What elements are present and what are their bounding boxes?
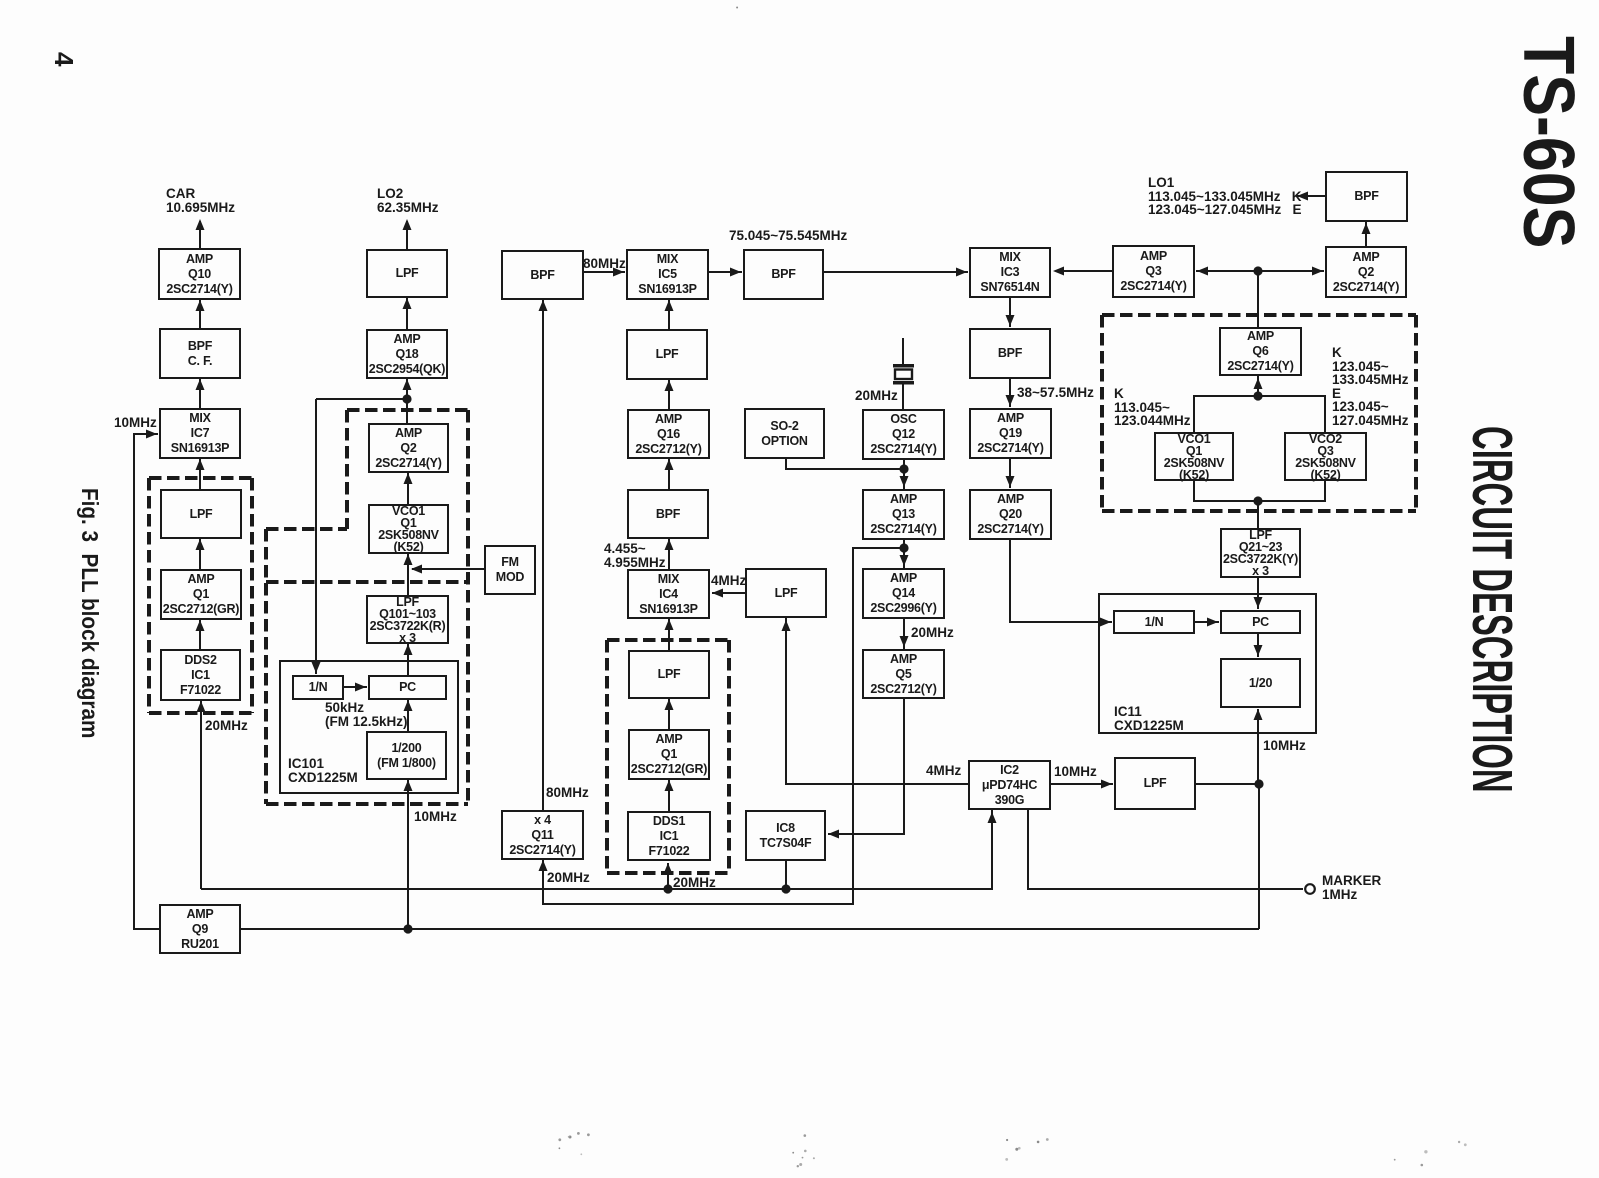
arrow into 1/20 (1254, 645, 1263, 656)
block AMP Q18 (366, 329, 448, 379)
block BPF (80MHz) (501, 250, 584, 300)
dashed group VCO1-left left edge upper (345, 410, 349, 529)
block PC (IC101) (368, 675, 447, 700)
block MIX IC4 (627, 569, 710, 619)
block 1/N (IC101) (292, 675, 344, 700)
junction DDS1 20MHz (663, 884, 672, 893)
label LO2 62.35MHz (377, 187, 439, 215)
wire AMP Q14 to AMP Q5 20MHz (903, 619, 905, 649)
arrow into 1/20 bottom (1254, 709, 1263, 720)
junction 10MHz right (1254, 779, 1263, 788)
arrow into 1/200 (404, 780, 413, 791)
crystal X1 20MHz plates and body (893, 364, 914, 385)
arrow into PC IC101 (404, 700, 413, 711)
arrow into PC IC11 (1207, 618, 1218, 627)
arrow into AMP Q1 DDS1 group (665, 780, 674, 791)
block BPF (LO1) (1325, 171, 1408, 222)
block LPF Q101-103 (366, 595, 449, 644)
block PC (IC11) (1220, 610, 1301, 634)
label MARKER 1MHz (1322, 874, 1381, 902)
junction IC8 20MHz (781, 884, 790, 893)
arrow 1/N to PC IC101 (355, 683, 366, 692)
wire IC8 bottom to rail (785, 861, 787, 889)
block 1/N (IC11) (1113, 610, 1195, 634)
wire 10MHz into MIX IC7 (134, 434, 159, 929)
wire 1/N to PC (IC101) (344, 686, 367, 688)
block AMP Q9 (159, 904, 241, 954)
wire BPF to MIX IC5 80MHz (584, 271, 625, 273)
arrow into 1/N IC101 (312, 662, 321, 673)
block BPF (75MHz) (743, 249, 824, 300)
label 10MHz 1/20 (1263, 739, 1306, 753)
block VCO1 Q1 (right) (1154, 432, 1234, 481)
dashed group right edge shared (466, 410, 470, 804)
label 80MHz x4 (546, 786, 589, 800)
wire LPF to MIX IC7 (199, 459, 201, 489)
wire crystal top lead (902, 338, 904, 364)
wire LO2 output (406, 221, 408, 249)
wire PC to 1/20 (1257, 634, 1259, 657)
wire MIX IC5 to BPF 75MHz (709, 271, 742, 273)
label CAR 10.695MHz (166, 187, 235, 215)
arrow into DDS2 (197, 701, 206, 712)
wire MIX IC7 to BPF C.F. (199, 379, 201, 408)
arrow into AMP Q10 (196, 300, 205, 311)
wire AMP Q1 to LPF (199, 539, 201, 569)
arrow into VCO1 (404, 554, 413, 565)
block FM MOD (484, 545, 536, 595)
arrow into MIX IC5 left (613, 268, 624, 277)
wire x4 to BPF 80MHz (542, 300, 544, 810)
wire VCO bottoms rail (1194, 481, 1325, 501)
wire VCO tops rail (1194, 396, 1325, 432)
wire PC to LPF Q101 (407, 644, 409, 675)
IC container IC11 CXD1225M (1098, 593, 1317, 734)
block IC2 uPD74HC390G (968, 760, 1051, 810)
wire branch down to 1/N (315, 399, 317, 674)
wire AMP Q6 to VCO junction (1257, 376, 1259, 396)
block LPF (10MHz) (1114, 757, 1196, 810)
block LPF (DDS2 group) (160, 489, 242, 539)
wire CAR output (199, 221, 201, 248)
block 1/200 (366, 731, 447, 780)
label CIRCUIT DESCRIPTION (rotated) (1459, 426, 1525, 793)
wire AMP Q2 to BPF (LO1) (1365, 221, 1367, 246)
label 10MHz IC2 (1054, 765, 1097, 779)
junction 10MHz rail left (403, 924, 412, 933)
arrow into AMP Q3 right (1197, 267, 1208, 276)
block AMP Q5 (862, 649, 945, 699)
wire crystal bottom lead (902, 384, 904, 409)
wire SO-2 OPTION to OSC junction (786, 459, 904, 469)
dashed group DDS2 bottom edge (149, 711, 252, 715)
label K 113.045-123.044MHz (1114, 387, 1191, 428)
dashed group DDS1 right edge (727, 640, 731, 873)
label 4MHz MIX IC4 (711, 574, 746, 588)
arrow into BPF 4.455MHz (665, 539, 674, 550)
arrow into IC2 bottom (988, 812, 997, 823)
junction AMP Q13 output (899, 543, 908, 552)
dashed group DDS1 outline (607, 638, 729, 642)
wire junction A to divider branch (316, 398, 407, 400)
wire AMP Q3 to MIX IC3 (1056, 270, 1112, 272)
arrow into MIX IC7 left (146, 430, 157, 439)
arrow into x4 (539, 860, 548, 871)
arrow into AMP Q2 LO1 left (1312, 267, 1323, 276)
block DDS1 IC1 (627, 811, 711, 861)
block LPF (4MHz) (745, 568, 827, 618)
wire 1/N to PC (IC11) (1195, 621, 1219, 623)
block AMP Q16 (627, 409, 710, 459)
arrow into MIX IC3 right (1053, 267, 1064, 276)
arrow into LPF 10MHz left (1101, 780, 1112, 789)
block VCO2 Q3 (1284, 432, 1367, 481)
arrow into MIX IC7 bottom (196, 459, 205, 470)
wire 20MHz to x4 (543, 548, 903, 904)
block AMP Q1 (DDS1 group) (628, 729, 710, 780)
wire IC2 to LPF 10MHz (1051, 783, 1113, 785)
block DDS2 IC1 (160, 649, 241, 701)
wire 10MHz rail bottom (241, 928, 1259, 930)
arrow into LPF LO2 (403, 298, 412, 309)
arrow into AMP Q19 (1006, 395, 1015, 406)
block 1/20 (1220, 658, 1301, 708)
wire LPF to MIX IC5 vertical (668, 300, 670, 329)
wire AMP Q2 up to junction A (406, 379, 408, 423)
wire OSC Q12 to AMP Q13 (903, 459, 905, 489)
label IC11 CXD1225M (1114, 705, 1184, 733)
block AMP Q19 (969, 408, 1052, 459)
wire 20MHz rail to DDS2 (200, 701, 202, 889)
block x4 Q11 (501, 810, 584, 860)
label TS-60S (rotated) (1507, 36, 1589, 248)
block SO-2 OPTION (744, 408, 825, 459)
arrow into MIX IC4 bottom (665, 619, 674, 630)
block IC8 TC7S04F (745, 810, 826, 861)
arrow into BPF 80MHz (539, 300, 548, 311)
arrow FM MOD into VCO line (411, 565, 422, 574)
wire LPF Q21-23 to PC (1257, 578, 1259, 609)
wire LPF Q101 to VCO1 (407, 554, 409, 595)
dashed group divider edge (266, 580, 468, 584)
wire BPF LO1 output (1297, 195, 1325, 197)
junction AMP Q18 branch (402, 394, 411, 403)
block AMP Q3 (1112, 245, 1195, 298)
label 20MHz DDS1 (673, 876, 716, 890)
wire MIX IC4 to BPF 4.455MHz (668, 539, 670, 569)
block AMP Q20 (969, 489, 1052, 540)
wire AMP Q18 to LPF (406, 298, 408, 329)
block AMP Q10 (158, 248, 241, 300)
wire VCO rail to LPF Q21-23 (1257, 501, 1259, 528)
label page number 4 (rotated) (48, 52, 79, 66)
wire IC2 to LPF 4MHz (786, 618, 968, 784)
arrow into DDS1 (664, 863, 673, 874)
dashed group VCO-right left edge (1100, 315, 1104, 511)
arrow into 1/N IC11 (1100, 618, 1111, 627)
wire 10MHz junction to 1/20 (1257, 709, 1259, 784)
arrow into LPF 4MHz bottom (782, 620, 791, 631)
IC container IC101 CXD1225M (279, 660, 459, 794)
arrow into BPF LO1 (1362, 223, 1371, 234)
wire LPF to MIX IC4 4MHz (712, 592, 745, 594)
wire 20MHz rail to DDS1 (667, 863, 669, 889)
wire BPF to AMP Q16 (668, 459, 670, 489)
arrow into LPF Q101 (404, 644, 413, 655)
label IC101 CXD1225M (288, 757, 358, 785)
wire 1/200 to PC (407, 700, 409, 731)
junction LO1 line (1253, 266, 1262, 275)
block LPF (LO2) (366, 249, 448, 298)
dashed group VCO-right bottom edge (1102, 509, 1416, 513)
wire DDS2 to AMP Q1 (199, 620, 201, 649)
arrow LO2 out (403, 219, 412, 230)
block VCO1 Q1 (left) (368, 504, 449, 554)
block LPF Q21-23 (1220, 528, 1301, 578)
arrow into AMP Q1 (196, 620, 205, 631)
wire VCO1 to AMP Q2 (407, 473, 409, 504)
arrow BPF LO1 out (1297, 192, 1308, 201)
wire AMP Q5 to IC8 (828, 699, 904, 834)
arrow into BPF 75MHz (730, 268, 741, 277)
label 80MHz MIX IC5 (583, 257, 626, 271)
dashed group DDS1 left edge (605, 640, 609, 873)
wire MIX IC3 to BPF 38MHz (1009, 298, 1011, 327)
arrow into MIX IC5 bottom (665, 300, 674, 311)
arrow into LPF (196, 539, 205, 550)
node MARKER terminal (1305, 884, 1315, 894)
block BPF (4.455MHz) (627, 489, 709, 539)
wire DDS1 to AMP Q1 (668, 780, 670, 811)
dashed group DDS1 bottom edge (607, 871, 729, 875)
block OSC Q12 (862, 409, 945, 460)
dashed group VCO1-left top edge (347, 408, 468, 412)
arrow into AMP Q13 (900, 476, 909, 487)
dashed group VCO-right top edge (1102, 313, 1416, 317)
label 50kHz FM 12.5kHz (325, 701, 408, 729)
label 20MHz DDS2 (205, 719, 248, 733)
wire AMP Q6 up to LO1 line (1257, 271, 1259, 327)
arrow into BPF C.F. (196, 379, 205, 390)
junction VCO top rail (1253, 391, 1262, 400)
block AMP Q6 (1219, 327, 1302, 376)
junction OSC output (899, 464, 908, 473)
block AMP Q13 (862, 489, 945, 540)
dashed group jog edge (266, 527, 347, 531)
wire 20MHz rail (201, 810, 992, 889)
arrow into AMP Q20 (1006, 476, 1015, 487)
block AMP Q1 (left) (160, 569, 242, 620)
arrow into AMP Q16 (665, 459, 674, 470)
arrow into MIX IC4 right (712, 589, 723, 598)
wire BPF to MIX IC3 (824, 271, 968, 273)
label 75.045-75.545MHz (729, 229, 847, 243)
arrow into PC IC11 top (1254, 597, 1263, 608)
arrow into IC8 right (828, 830, 839, 839)
dashed group DDS2 left edge (147, 478, 151, 713)
dashed group IC101 bottom edge (266, 802, 468, 806)
wire AMP Q16 to LPF (668, 380, 670, 409)
label LO1 frequencies (1148, 176, 1301, 217)
wire junction down to 10MHz rail (1258, 784, 1260, 929)
label 4.455-4.955MHz (604, 542, 666, 570)
dashed group DDS2 top edge (149, 476, 252, 480)
wire AMP Q20 to 1/N (IC11) (1010, 539, 1112, 622)
arrow into AMP Q18 (403, 379, 412, 390)
block AMP Q2 (VCO1 group) (368, 423, 449, 473)
wire AMP Q19 to AMP Q20 (1009, 458, 1011, 488)
dashed group IC101 left edge (264, 529, 268, 804)
label 38-57.5MHz (1017, 386, 1094, 400)
arrow into BPF 38MHz (1006, 315, 1015, 326)
wire AMP Q13 to AMP Q14 (903, 539, 905, 568)
wire FM MOD to VCO line (412, 568, 484, 570)
label 10MHz 1/200 (414, 810, 457, 824)
label 10MHz MIX IC7 (114, 416, 157, 430)
block MIX IC5 (626, 249, 709, 300)
wire AMP Q1 to LPF (DDS1 group) (668, 699, 670, 729)
wire LO1 distribution line (1196, 270, 1324, 272)
block AMP Q14 (862, 568, 945, 619)
junction VCO bottom rail (1253, 496, 1262, 505)
block LPF (IC5 input) (626, 329, 708, 380)
arrow into AMP Q5 (900, 636, 909, 647)
block MIX IC7 (159, 408, 241, 459)
arrow into AMP Q6 (1254, 378, 1263, 389)
arrow into LPF IC5 input (665, 380, 674, 391)
block MIX IC3 (969, 247, 1051, 298)
label 20MHz x4 (547, 871, 590, 885)
arrow into MIX IC3 left (956, 268, 967, 277)
arrow into AMP Q14 (900, 555, 909, 566)
wire 10MHz rail to 1/200 (407, 780, 409, 929)
label 20MHz crystal (855, 389, 898, 403)
wire BPF to AMP Q19 (1009, 379, 1011, 407)
wire IC2 to MARKER 1MHz (1028, 810, 1303, 889)
wire LPF 10MHz to junction (1196, 783, 1259, 785)
dashed group VCO-right right edge (1414, 315, 1418, 511)
arrow into LPF DDS1 group (665, 699, 674, 710)
wire LPF to MIX IC4 vertical (668, 619, 670, 650)
arrow into AMP Q2 (404, 473, 413, 484)
wire BPF C.F. to AMP Q10 (199, 300, 201, 328)
label 4MHz IC2 (926, 764, 961, 778)
block AMP Q2 (LO1) (1325, 246, 1407, 298)
label K E VCO ranges (1332, 346, 1409, 427)
dashed group DDS2 right edge (250, 478, 254, 713)
arrow CAR out (196, 219, 205, 230)
label Fig. 3 PLL block diagram (rotated) (76, 488, 103, 738)
block LPF (DDS1 group) (628, 650, 710, 699)
block BPF C.F. (159, 328, 241, 379)
block BPF (38MHz) (969, 328, 1051, 379)
label 20MHz Q14-Q5 (911, 626, 954, 640)
